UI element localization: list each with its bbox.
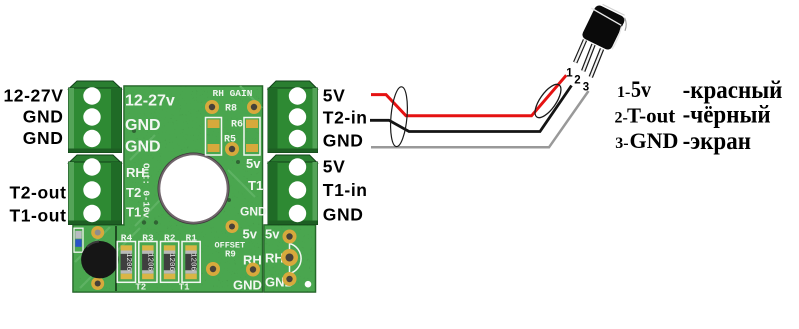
footprint R5 outline (206, 118, 222, 156)
terminal block J2 bottom-left (69, 155, 122, 225)
svg-text:-экран: -экран (683, 127, 751, 155)
terminal block J3 top-right (268, 81, 318, 153)
svg-text:5v: 5v (265, 227, 280, 242)
svg-text:GND: GND (125, 139, 161, 156)
cable jacket ellipse 2 (530, 80, 565, 121)
svg-text:1-: 1- (617, 84, 630, 101)
breakaway piece pad 5v (283, 230, 297, 244)
svg-text:T1: T1 (248, 178, 263, 193)
svg-text:-чёрный: -чёрный (683, 101, 771, 129)
LED D1 outline (74, 228, 83, 252)
svg-text:GND: GND (323, 204, 364, 224)
svg-text:5v: 5v (243, 227, 258, 242)
svg-text:T-out: T-out (627, 104, 675, 128)
svg-text:T2-out: T2-out (9, 182, 66, 202)
breakaway piece silk D outline (290, 244, 302, 274)
footprint R6 outline (244, 118, 260, 156)
board grain texture (73, 86, 316, 292)
svg-text:T1-in: T1-in (323, 180, 368, 200)
PCB board texture traces (75, 86, 262, 288)
transistor Q1 leg 3 (591, 49, 602, 77)
trimmer R8 pad bottom (225, 142, 239, 156)
svg-text:R8: R8 (225, 104, 237, 115)
svg-text:2: 2 (574, 75, 580, 87)
transistor Q1 body (581, 4, 626, 51)
trimmer R9 pad right (246, 263, 260, 277)
svg-text:T1: T1 (179, 283, 190, 293)
via dots (132, 129, 240, 225)
svg-text:1206: 1206 (189, 253, 197, 272)
svg-text:T2: T2 (126, 185, 141, 200)
breakaway piece hole (305, 281, 312, 288)
PCB main board (73, 86, 263, 292)
pad above capacitor (91, 226, 104, 239)
svg-text:2-: 2- (615, 110, 628, 127)
svg-text:Out: 0-10v: Out: 0-10v (141, 163, 152, 218)
resistor R1 (182, 233, 200, 283)
wire shield gray GND (371, 91, 589, 147)
svg-text:1206: 1206 (145, 253, 153, 272)
svg-text:GND: GND (240, 205, 267, 219)
terminal block J1 top-left (69, 81, 122, 153)
pad below capacitor (91, 277, 104, 290)
pad below hole (226, 220, 239, 233)
svg-text:3: 3 (583, 81, 589, 93)
svg-text:GND: GND (23, 128, 64, 148)
trimmer R8 pad left (205, 100, 219, 114)
terminal block J4 bottom-right (268, 155, 318, 225)
breakaway piece pad GND (283, 272, 297, 286)
svg-text:GND: GND (323, 131, 364, 151)
wire black T-out (370, 86, 572, 132)
resistor R4 (117, 233, 135, 283)
svg-text:T1-out: T1-out (9, 205, 66, 225)
svg-text:T2-in: T2-in (323, 108, 368, 128)
svg-text:12-27V: 12-27V (3, 86, 63, 106)
svg-text:GND: GND (233, 278, 262, 293)
svg-text:12-27v: 12-27v (125, 93, 175, 110)
resistor R3 (139, 233, 157, 283)
svg-text:1206: 1206 (167, 253, 175, 272)
capacitor C1 (81, 241, 118, 278)
cable jacket ellipse 1 (388, 86, 409, 147)
svg-text:5V: 5V (323, 156, 346, 176)
transistor Q1 leg 1 (575, 40, 585, 63)
svg-text:5V: 5V (323, 86, 346, 106)
svg-text:3-: 3- (615, 135, 628, 152)
svg-text:T2: T2 (135, 283, 146, 293)
svg-text:GND: GND (125, 117, 161, 134)
svg-text:RH: RH (265, 251, 284, 266)
svg-text:5v: 5v (246, 156, 261, 171)
svg-text:R9: R9 (225, 250, 236, 260)
svg-text:R6: R6 (231, 120, 243, 131)
svg-text:1: 1 (566, 67, 573, 79)
routed slot line (115, 226, 117, 291)
trimmer R9 pad left (206, 262, 220, 276)
svg-text:RH GAIN: RH GAIN (213, 88, 253, 99)
wire red 5V (371, 75, 566, 116)
resistor R2 (161, 233, 179, 283)
center mounting hole (158, 153, 230, 225)
svg-text:1206: 1206 (124, 253, 132, 272)
svg-text:GND: GND (23, 107, 64, 127)
breakaway piece pad RH (281, 249, 298, 266)
trimmer R8 pad right (247, 100, 261, 114)
PCB bottom-right breakaway piece (264, 225, 316, 292)
svg-text:GND: GND (630, 128, 679, 153)
transistor Q1 leg 2 (583, 45, 593, 72)
svg-text:T1: T1 (126, 204, 141, 219)
svg-text:5v: 5v (631, 77, 651, 103)
